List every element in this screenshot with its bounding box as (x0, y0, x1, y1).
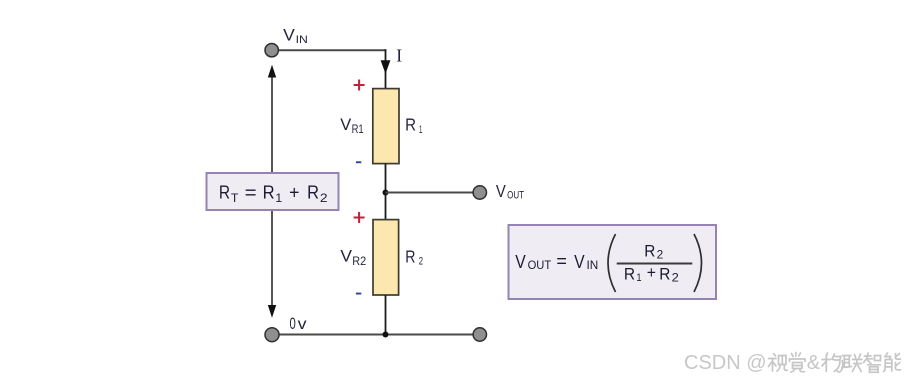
label 0V (290, 314, 307, 333)
svg-text:2: 2 (419, 256, 423, 268)
fraction bar (617, 263, 693, 265)
svg-text:CSDN @: CSDN @ (684, 352, 767, 374)
right parenthesis (694, 234, 702, 292)
total-voltage double arrow (bottom head) (268, 305, 276, 318)
junction node between R1 and R2 (383, 190, 389, 196)
watermark glyph 视 (769, 354, 788, 372)
svg-text:=: = (556, 251, 567, 271)
watermark glyph 联 (842, 354, 862, 372)
svg-text:IN: IN (296, 34, 308, 46)
svg-text:1: 1 (275, 193, 282, 205)
left parenthesis (608, 234, 616, 292)
svg-text:R: R (624, 265, 635, 283)
svg-text:v: v (298, 316, 307, 333)
node VIN (265, 44, 278, 57)
wire R1 bottom to R2 top (385, 164, 387, 220)
watermark glyph 能 (884, 353, 901, 372)
resistor R1 (373, 89, 399, 164)
svg-text:IN: IN (587, 258, 599, 272)
svg-text:1: 1 (419, 124, 422, 136)
label R2 (405, 246, 423, 267)
total-voltage double arrow (top head) (268, 65, 276, 78)
label R1 (405, 114, 422, 136)
label VOUT (496, 181, 524, 202)
minus sign of VR2 (356, 293, 361, 295)
svg-text:V: V (283, 26, 295, 44)
wire top horizontal VIN to corner (278, 49, 386, 51)
resistor R2 (373, 220, 399, 295)
svg-text:=: = (245, 182, 257, 202)
svg-text:V: V (496, 181, 506, 201)
svg-text:T: T (231, 193, 239, 205)
node VOUT (473, 186, 486, 199)
junction node on ground rail (383, 332, 389, 338)
svg-text:&: & (807, 352, 821, 374)
watermark glyph 觉 (790, 353, 806, 373)
svg-text:R: R (405, 246, 415, 266)
svg-text:R: R (644, 242, 655, 260)
label VR2 (340, 247, 366, 268)
ground rail wire 0V (279, 334, 474, 336)
svg-text:2: 2 (657, 249, 664, 261)
total-voltage double arrow shaft lower (271, 211, 273, 310)
svg-text:I: I (396, 46, 402, 66)
node bottom right (473, 328, 486, 341)
svg-text:R: R (219, 182, 230, 202)
svg-text:V: V (574, 252, 585, 272)
svg-text:R1: R1 (352, 122, 364, 136)
total-voltage double arrow shaft upper (271, 74, 273, 172)
label VR1 (340, 115, 364, 136)
svg-text:+: + (289, 182, 299, 202)
svg-text:R: R (659, 265, 670, 283)
current arrow I head (381, 60, 391, 74)
label VIN (283, 26, 308, 46)
svg-text:V: V (515, 252, 526, 272)
watermark glyph 智 (864, 353, 881, 372)
svg-text:R: R (307, 182, 319, 202)
svg-text:+: + (647, 264, 656, 282)
svg-text:2: 2 (672, 273, 679, 285)
plus sign of VR1 (354, 80, 365, 91)
svg-text:R: R (263, 182, 275, 202)
node 0V (265, 328, 279, 342)
minus sign of VR1 (356, 161, 361, 163)
wire vertical from corner to R1 top (385, 49, 387, 89)
equation box VOUT formula (509, 225, 717, 299)
svg-text:V: V (340, 247, 352, 266)
svg-text:R: R (405, 114, 416, 134)
wire junction to VOUT node (386, 192, 474, 194)
fraction numerator R2 (644, 242, 663, 261)
svg-text:R2: R2 (352, 254, 366, 268)
svg-text:OUT: OUT (528, 258, 552, 272)
plus sign of VR2 (354, 212, 365, 223)
svg-text:2: 2 (320, 193, 328, 205)
svg-text:1: 1 (636, 272, 641, 284)
svg-text:V: V (340, 115, 352, 134)
watermark glyph 物 (822, 353, 843, 372)
formula left-hand text (515, 251, 598, 272)
svg-text:OUT: OUT (507, 189, 524, 201)
equation box RT (207, 173, 339, 210)
svg-text:0: 0 (290, 314, 296, 333)
wire R2 bottom to ground rail (385, 295, 387, 335)
fraction denominator R1+R2 (624, 264, 679, 285)
